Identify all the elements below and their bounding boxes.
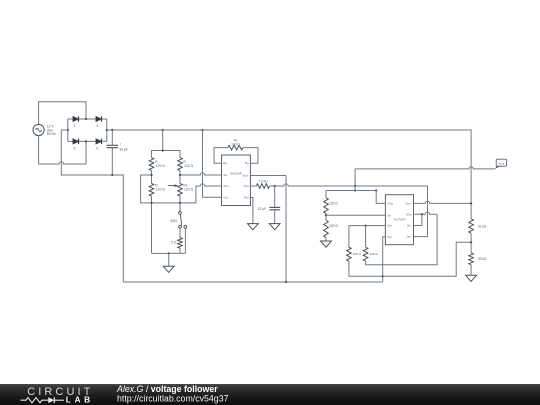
svg-text:2Out: 2Out (406, 212, 412, 216)
svg-text:2In-: 2In- (407, 224, 412, 228)
svg-text:3: 3 (74, 124, 76, 128)
svg-text:5: 5 (74, 147, 76, 151)
svg-text:91 kΩ: 91 kΩ (478, 224, 487, 228)
svg-text:50 Hz: 50 Hz (47, 132, 56, 136)
svg-text:120 Ω: 120 Ω (353, 252, 362, 256)
svg-text:Vcc-: Vcc- (223, 195, 228, 199)
svg-text:Vout: Vout (243, 184, 249, 188)
svg-text:30 kΩ: 30 kΩ (478, 257, 487, 261)
svg-text:Alex.G / voltage follower: Alex.G / voltage follower (116, 384, 218, 394)
svg-text:Rg: Rg (223, 161, 227, 165)
svg-text:http://circuitlab.com/cv54g37: http://circuitlab.com/cv54g37 (117, 394, 229, 404)
svg-text:7.2 kΩ: 7.2 kΩ (258, 179, 268, 183)
svg-text:Rg: Rg (245, 161, 249, 165)
svg-text:120 Ω: 120 Ω (156, 188, 166, 192)
svg-text:1In+: 1In+ (387, 224, 393, 228)
svg-text:TL072CP: TL072CP (393, 218, 405, 222)
svg-text:2In+: 2In+ (406, 235, 412, 239)
svg-text:22 µF: 22 µF (258, 207, 266, 211)
svg-text:100 Ω: 100 Ω (231, 142, 240, 146)
svg-text:1Out: 1Out (387, 202, 393, 206)
svg-text:LAB: LAB (66, 394, 94, 404)
svg-text:INA126P: INA126P (230, 172, 242, 176)
svg-text:Ref: Ref (244, 196, 248, 200)
svg-text:120 Ω: 120 Ω (184, 188, 194, 192)
svg-text:Vin+: Vin+ (223, 184, 229, 188)
svg-text:SW1: SW1 (170, 219, 177, 223)
svg-text:100 Ω: 100 Ω (329, 201, 338, 205)
svg-text:120 Ω: 120 Ω (156, 164, 166, 168)
svg-text:Vcc+: Vcc+ (243, 174, 249, 178)
svg-text:4: 4 (96, 124, 98, 128)
svg-text:120 Ω: 120 Ω (184, 164, 194, 168)
svg-text:Vcc+: Vcc+ (406, 202, 412, 206)
svg-text:Vout: Vout (499, 161, 505, 165)
svg-text:33 µF: 33 µF (120, 148, 128, 152)
svg-text:5 Ω: 5 Ω (171, 241, 177, 245)
svg-text:Vcc-: Vcc- (387, 235, 392, 239)
svg-text:Vin-: Vin- (223, 173, 228, 177)
svg-text:120 Ω: 120 Ω (370, 252, 379, 256)
svg-text:100 Ω: 100 Ω (329, 224, 338, 228)
svg-text:1In-: 1In- (387, 213, 392, 217)
svg-text:6: 6 (96, 147, 98, 151)
